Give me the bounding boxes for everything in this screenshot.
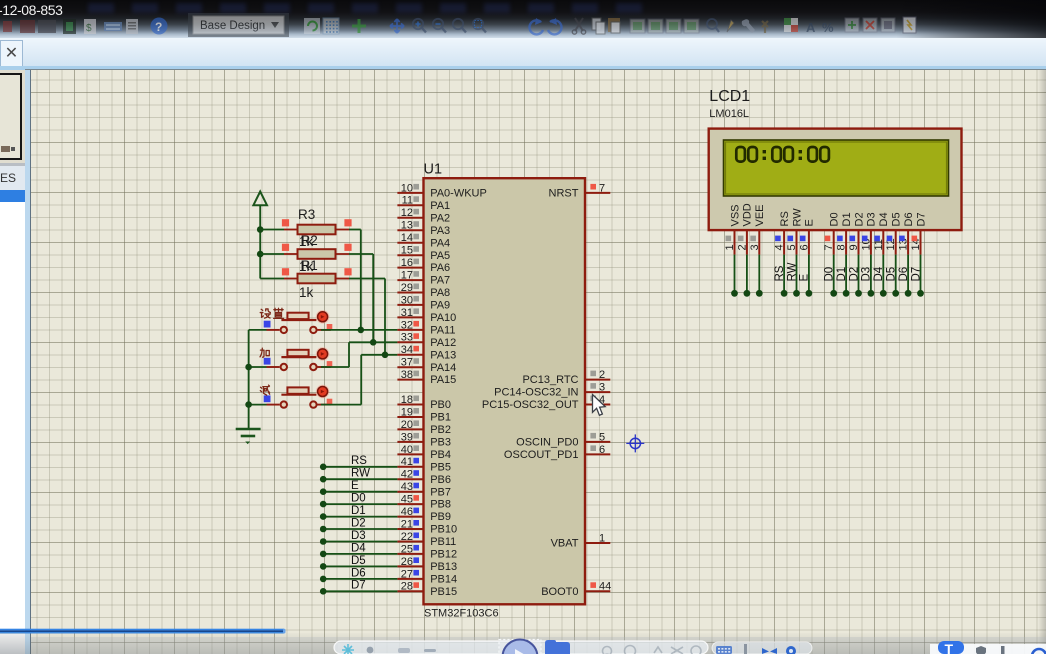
U1 pin 31 PA10 (397, 307, 456, 324)
U1 pin 20 PB2 (397, 419, 451, 436)
pushbutton (设置 / set) (249, 308, 333, 333)
svg-text:PA9: PA9 (430, 300, 450, 312)
wire LCD pin 8 (836, 255, 850, 297)
svg-text:NRST: NRST (549, 188, 579, 200)
svg-text:40: 40 (401, 444, 413, 456)
svg-text:LM016L: LM016L (709, 108, 749, 120)
wire net D2 to U1 (320, 517, 397, 532)
U1 pin 18 PB0 (397, 394, 451, 411)
wire LCD pin 6 (799, 255, 813, 297)
svg-text:1: 1 (724, 244, 736, 250)
selection rubber band line (0, 629, 286, 634)
svg-text:E: E (351, 480, 359, 492)
pushbutton (加 / plus) (249, 347, 333, 370)
value label LM016L (709, 108, 749, 120)
wire LCD pin 2 (744, 255, 751, 297)
LCD LCD1 LM016L body (709, 129, 962, 231)
svg-text:PA5: PA5 (430, 250, 450, 262)
wire net E to U1 (320, 480, 397, 495)
wire LCD pin 5 (786, 255, 800, 297)
svg-text:D7: D7 (910, 267, 922, 282)
wire net D5 to U1 (320, 555, 397, 570)
wire LCD pin 12 (886, 255, 900, 297)
value label STM32F103C6 (424, 608, 499, 620)
wire net RS to U1 (320, 455, 397, 470)
svg-text:RS: RS (774, 265, 786, 281)
svg-text:D4: D4 (878, 212, 890, 226)
svg-text:D2: D2 (853, 212, 865, 226)
wire ground rail (248, 330, 250, 428)
svg-text:E: E (799, 274, 811, 282)
svg-text:18: 18 (401, 394, 413, 406)
svg-text:27: 27 (401, 568, 413, 580)
U1 pin 5 OSCIN_PD0 (516, 431, 610, 448)
wire LCD pin 7 (824, 255, 838, 297)
LCD1 pin 5 RW (786, 208, 803, 255)
svg-text:PB13: PB13 (430, 561, 457, 573)
LCD1 pin 8 D1 (836, 212, 853, 254)
svg-text:R1: R1 (301, 258, 318, 273)
U1 pin 15 PA5 (397, 245, 450, 262)
U1 pin 28 PB15 (397, 581, 457, 598)
svg-text:D5: D5 (351, 555, 366, 567)
resistor R2 (label overlapped with 1k) (260, 233, 351, 259)
LCD1 pin 12 D5 (885, 212, 902, 254)
svg-text:D2: D2 (848, 267, 860, 282)
LCD screen (724, 140, 949, 196)
U1 pin 14 PA4 (397, 232, 450, 249)
U1 pin 13 PA3 (397, 220, 450, 237)
svg-text:PC13_RTC: PC13_RTC (522, 374, 578, 386)
wire R3 right to PA11 column (349, 230, 361, 330)
resistor R1 (label overlapped with 1k) (260, 258, 351, 283)
svg-text:RW: RW (786, 262, 798, 281)
svg-text:19: 19 (401, 406, 413, 418)
svg-text:41: 41 (401, 456, 413, 468)
svg-text:31: 31 (401, 307, 413, 319)
LCD1 pin 2 VDD (736, 203, 753, 254)
svg-text:20: 20 (401, 419, 413, 431)
U1 pin 41 PB5 (397, 456, 451, 473)
LCD1 pin 3 VEE (749, 204, 766, 254)
U1 pin 26 PB13 (397, 556, 457, 573)
U1 pin 33 PA12 (397, 332, 456, 349)
svg-text:RS: RS (351, 455, 367, 467)
U1 pin 42 PB6 (397, 469, 451, 486)
svg-text:D0: D0 (824, 267, 836, 282)
svg-text:PA0-WKUP: PA0-WKUP (430, 188, 487, 200)
U1 pin 27 PB14 (397, 568, 457, 585)
svg-text:1: 1 (599, 532, 605, 544)
wire LCD pin 14 (910, 255, 924, 297)
svg-text:D1: D1 (841, 212, 853, 226)
svg-text:42: 42 (401, 469, 413, 481)
U1 pin 32 PA11 (397, 319, 455, 336)
svg-text:D3: D3 (861, 267, 873, 282)
LCD1 pin 11 D4 (873, 212, 890, 254)
U1 pin 38 PA15 (397, 369, 456, 386)
U1 pin 16 PA6 (397, 257, 450, 274)
U1 pin 44 BOOT0 (541, 581, 611, 598)
svg-text:VDD: VDD (742, 203, 754, 226)
svg-text:15: 15 (401, 245, 413, 257)
LCD1 pin 1 VSS (724, 204, 741, 254)
svg-text:D3: D3 (866, 212, 878, 226)
U1 pin 34 PA13 (397, 344, 456, 361)
svg-text:R3: R3 (298, 207, 315, 222)
svg-text:STM32F103C6: STM32F103C6 (424, 608, 499, 620)
svg-text:RW: RW (791, 208, 803, 227)
svg-text:LCD1: LCD1 (709, 88, 750, 105)
svg-text:OSCIN_PD0: OSCIN_PD0 (516, 437, 578, 449)
value label 1k of R1 (299, 285, 314, 300)
svg-text:D4: D4 (351, 542, 366, 554)
svg-text:OSCOUT_PD1: OSCOUT_PD1 (504, 449, 579, 461)
svg-text:PB4: PB4 (430, 449, 451, 461)
svg-text:T: T (945, 641, 954, 654)
node: rail/button2 junction (245, 364, 252, 371)
svg-text:R2: R2 (301, 233, 318, 248)
U1 pin 43 PB7 (397, 481, 451, 498)
wire net RW to U1 (320, 468, 397, 483)
svg-text:7: 7 (599, 182, 605, 194)
U1 pin 6 OSCOUT_PD1 (504, 444, 610, 461)
svg-text:PA15: PA15 (430, 374, 456, 386)
svg-text:D3: D3 (351, 530, 366, 542)
svg-text:43: 43 (401, 481, 413, 493)
wire R1 right to PA13 column (349, 279, 385, 355)
pushbutton (减 / minus) (249, 385, 333, 408)
svg-text:$: $ (86, 23, 92, 34)
wire LCD pin 4 (774, 255, 788, 297)
svg-text:5: 5 (786, 244, 798, 250)
svg-text:PB9: PB9 (430, 511, 451, 523)
wire button2 to PA12 pin (321, 342, 397, 367)
wire button3 to PA13 pin (321, 355, 397, 405)
svg-text:RW: RW (351, 468, 370, 480)
svg-text:16: 16 (401, 257, 413, 269)
resistor R3 (260, 207, 351, 234)
op: U1 reference label (424, 162, 443, 178)
svg-text:D5: D5 (886, 267, 898, 282)
U1 pin 10 PA0-WKUP (397, 182, 486, 199)
U1 pin 37 PA14 (397, 357, 456, 374)
wire net D3 to U1 (320, 530, 397, 545)
svg-text:PA14: PA14 (430, 362, 456, 374)
svg-text:28: 28 (401, 581, 413, 593)
svg-text:PB1: PB1 (430, 412, 451, 424)
svg-text:PB3: PB3 (430, 437, 451, 449)
svg-text:5: 5 (599, 431, 605, 443)
svg-text:PA1: PA1 (430, 200, 450, 212)
node: button1/R3 junction (358, 327, 365, 334)
svg-text:45: 45 (401, 494, 413, 506)
svg-text:PB7: PB7 (430, 486, 451, 498)
mouse cursor (593, 395, 606, 416)
LCD1 pin 4 RS (774, 211, 791, 254)
svg-text:D6: D6 (351, 567, 366, 579)
svg-text:D6: D6 (903, 212, 915, 226)
MCU U1 STM32F103C6 body (424, 178, 586, 604)
svg-text:37: 37 (401, 357, 413, 369)
wire net D0 to U1 (320, 493, 397, 508)
svg-text:46: 46 (401, 506, 413, 518)
svg-text:25: 25 (401, 543, 413, 555)
svg-text:PA7: PA7 (430, 275, 450, 287)
svg-text:PC15-OSC32_OUT: PC15-OSC32_OUT (482, 399, 579, 411)
U1 pin 2 PC13_RTC (522, 369, 610, 386)
svg-text:33: 33 (401, 332, 413, 344)
svg-text:PA6: PA6 (430, 262, 450, 274)
svg-text:34: 34 (401, 344, 413, 356)
node: power rail junction R3 (257, 226, 264, 233)
svg-text:14: 14 (401, 232, 413, 244)
U1 pin 4 PC15-OSC32_OUT (482, 394, 610, 411)
U1 pin 29 PA8 (397, 282, 450, 299)
LCD1 pin 13 D6 (898, 212, 915, 254)
wire LCD pin 11 (873, 255, 887, 297)
svg-text:12: 12 (401, 207, 413, 219)
svg-text:U1: U1 (424, 162, 443, 178)
svg-text:VEE: VEE (754, 204, 766, 226)
node: button3/R1 junction (382, 352, 389, 359)
wire net D4 to U1 (320, 542, 397, 557)
svg-text:2: 2 (736, 244, 748, 250)
wire R2 right to PA12 column (349, 254, 373, 342)
U1 pin 46 PB9 (397, 506, 451, 523)
svg-text:13: 13 (401, 220, 413, 232)
crosshair marker (626, 434, 644, 452)
svg-text:PA2: PA2 (430, 212, 450, 224)
U1 pin 40 PB4 (397, 444, 451, 461)
node: button2/R2 junction (370, 339, 377, 346)
svg-text:PA3: PA3 (430, 225, 450, 237)
svg-text:29: 29 (401, 282, 413, 294)
U1 pin 11 PA1 (397, 195, 450, 212)
svg-text:D0: D0 (351, 493, 366, 505)
svg-text:BOOT0: BOOT0 (541, 586, 578, 598)
svg-text:D1: D1 (836, 267, 848, 282)
svg-text:32: 32 (401, 319, 413, 331)
wire LCD pin 9 (848, 255, 862, 297)
svg-text:VSS: VSS (729, 204, 741, 226)
svg-text:D5: D5 (891, 212, 903, 226)
svg-text:D7: D7 (915, 212, 927, 226)
wire net D1 to U1 (320, 505, 397, 520)
svg-text:11: 11 (402, 195, 413, 207)
LCD1 pin 9 D2 (848, 212, 865, 254)
svg-text:D4: D4 (873, 266, 885, 281)
svg-text:E: E (804, 219, 816, 226)
wire LCD pin 10 (861, 255, 875, 297)
U1 pin 17 PA7 (397, 270, 450, 287)
svg-text:PA12: PA12 (430, 337, 456, 349)
svg-text:26: 26 (401, 556, 413, 568)
svg-text:8: 8 (836, 244, 848, 250)
node: power rail junction R2 (257, 251, 264, 258)
svg-text:D7: D7 (351, 580, 366, 592)
svg-text:PB14: PB14 (430, 574, 457, 586)
svg-text:9: 9 (848, 244, 860, 250)
svg-text:3: 3 (599, 382, 605, 394)
svg-text:D0: D0 (829, 212, 841, 226)
node: rail/button3 junction (245, 401, 252, 408)
svg-text:PB8: PB8 (430, 499, 451, 511)
svg-text:RS: RS (779, 211, 791, 226)
svg-text:%: % (822, 20, 834, 35)
svg-text:D1: D1 (351, 505, 366, 517)
svg-text:6: 6 (599, 444, 605, 456)
ground (236, 429, 261, 444)
svg-text:D2: D2 (351, 517, 366, 529)
U1 pin 1 VBAT (551, 532, 611, 549)
svg-text:PB11: PB11 (430, 536, 456, 548)
U1 pin 7 NRST (549, 182, 611, 199)
svg-text:PA13: PA13 (430, 349, 456, 361)
wire net D7 to U1 (320, 580, 397, 595)
wire net D6 to U1 (320, 567, 397, 582)
svg-text:44: 44 (599, 581, 611, 593)
U1 pin 22 PB11 (397, 531, 456, 548)
U1 pin 19 PB1 (397, 406, 451, 423)
svg-text:A: A (806, 20, 816, 35)
svg-text:PA8: PA8 (430, 287, 450, 299)
wire LCD pin 13 (898, 255, 912, 297)
svg-text:PC14-OSC32_IN: PC14-OSC32_IN (494, 387, 578, 399)
U1 pin 3 PC14-OSC32_IN (494, 382, 610, 399)
svg-text:PB0: PB0 (430, 399, 451, 411)
LCD display text 00:00:00 (736, 147, 829, 162)
svg-text:?: ? (155, 20, 162, 34)
svg-text:Base Design: Base Design (200, 20, 265, 32)
svg-text:7: 7 (823, 244, 835, 250)
svg-text:4: 4 (774, 244, 786, 250)
LCD1 pin 10 D3 (860, 212, 877, 254)
U1 pin 12 PA2 (397, 207, 450, 224)
svg-text:PA10: PA10 (430, 312, 456, 324)
svg-text:PA11: PA11 (430, 325, 455, 337)
svg-text:VBAT: VBAT (551, 538, 579, 550)
U1 pin 30 PA9 (397, 294, 450, 311)
LCD1 pin 7 D0 (823, 212, 840, 254)
svg-text:22: 22 (401, 531, 413, 543)
svg-text:6: 6 (798, 244, 810, 250)
svg-text:39: 39 (401, 431, 413, 443)
U1 pin 45 PB8 (397, 494, 451, 511)
svg-text:PB6: PB6 (430, 474, 451, 486)
wire LCD pin 3 (756, 255, 763, 297)
LCD1 pin 14 D7 (910, 212, 927, 254)
svg-text:21: 21 (401, 518, 413, 530)
svg-text:3: 3 (749, 244, 761, 250)
power symbol VCC arrow (253, 192, 267, 279)
svg-text:PA4: PA4 (430, 237, 450, 249)
svg-text:D6: D6 (898, 267, 910, 282)
op: LCD1 reference label (709, 88, 750, 105)
svg-text:PB2: PB2 (430, 424, 451, 436)
svg-text:PB12: PB12 (430, 549, 457, 561)
svg-text:PB10: PB10 (430, 524, 457, 536)
svg-text:2: 2 (599, 369, 605, 381)
svg-text:30: 30 (401, 294, 413, 306)
svg-text:1k: 1k (299, 285, 314, 300)
U1 pin 21 PB10 (397, 518, 457, 535)
svg-text:PB5: PB5 (430, 461, 451, 473)
wire button1 to PA11 pin (321, 329, 397, 331)
svg-text:10: 10 (401, 182, 413, 194)
wire LCD pin 1 (731, 255, 738, 297)
svg-text:38: 38 (401, 369, 413, 381)
U1 pin 39 PB3 (397, 431, 451, 448)
LCD1 pin 6 E (798, 219, 815, 254)
svg-text:PB15: PB15 (430, 586, 457, 598)
U1 pin 25 PB12 (397, 543, 457, 560)
svg-text:17: 17 (401, 270, 413, 282)
